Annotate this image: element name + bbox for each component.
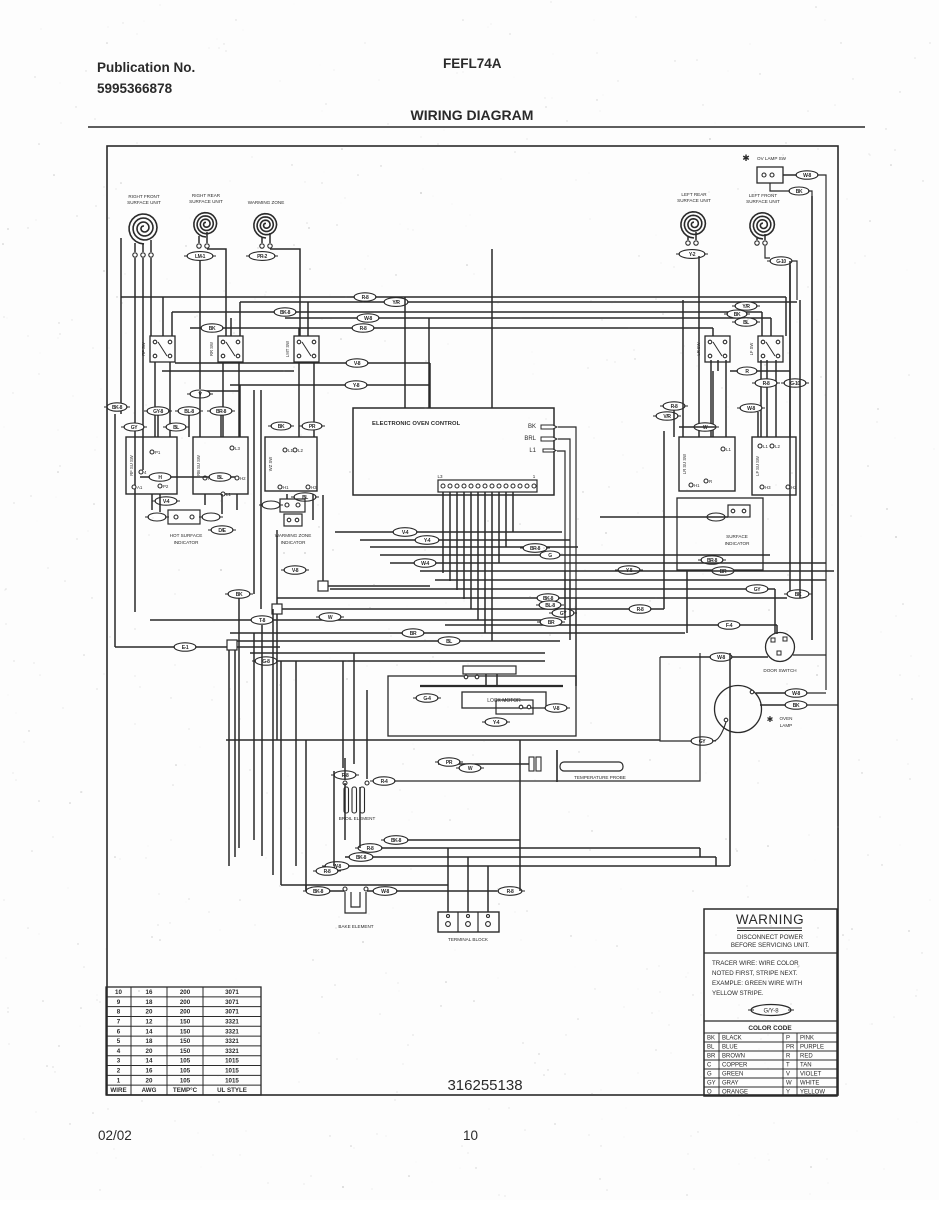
svg-text:TAN: TAN bbox=[800, 1063, 812, 1069]
svg-text:✱: ✱ bbox=[767, 715, 774, 724]
svg-text:BK-8: BK-8 bbox=[112, 405, 123, 411]
svg-text:V-4: V-4 bbox=[402, 530, 409, 536]
svg-text:LEFT REAR: LEFT REAR bbox=[681, 192, 707, 197]
svg-text:150: 150 bbox=[180, 1018, 191, 1025]
svg-text:R: R bbox=[709, 479, 712, 484]
svg-text:V-4: V-4 bbox=[163, 499, 170, 505]
svg-text:RIGHT FRONT: RIGHT FRONT bbox=[128, 194, 159, 199]
svg-text:20: 20 bbox=[146, 1077, 153, 1084]
svg-text:14: 14 bbox=[146, 1058, 153, 1065]
svg-text:18: 18 bbox=[146, 1038, 153, 1045]
svg-text:TEMP°C: TEMP°C bbox=[173, 1087, 198, 1094]
svg-text:L3: L3 bbox=[235, 446, 240, 451]
svg-text:105: 105 bbox=[180, 1068, 191, 1075]
svg-text:BL: BL bbox=[743, 320, 749, 326]
svg-text:BEFORE SERVICING UNIT.: BEFORE SERVICING UNIT. bbox=[731, 942, 810, 949]
svg-text:V-8: V-8 bbox=[292, 568, 299, 574]
svg-text:LM-1: LM-1 bbox=[195, 254, 206, 260]
svg-text:INDICATOR: INDICATOR bbox=[725, 541, 751, 546]
svg-text:P2: P2 bbox=[163, 484, 169, 489]
svg-text:OVEN: OVEN bbox=[779, 716, 792, 721]
svg-text:W: W bbox=[703, 425, 708, 431]
svg-text:BR: BR bbox=[707, 1054, 716, 1060]
svg-text:105: 105 bbox=[180, 1058, 191, 1065]
svg-text:G-8: G-8 bbox=[262, 659, 270, 665]
svg-text:BK: BK bbox=[278, 424, 285, 430]
svg-text:F-4: F-4 bbox=[726, 623, 733, 629]
svg-text:3071: 3071 bbox=[225, 1009, 239, 1016]
svg-text:INDICATOR: INDICATOR bbox=[174, 540, 200, 545]
svg-text:TEMPERATURE PROBE: TEMPERATURE PROBE bbox=[574, 775, 626, 780]
svg-text:3321: 3321 bbox=[225, 1028, 239, 1035]
svg-text:G: G bbox=[707, 1072, 712, 1078]
svg-text:SURFACE UNIT: SURFACE UNIT bbox=[677, 198, 711, 203]
svg-text:L1: L1 bbox=[226, 492, 231, 497]
svg-text:WARMING ZONE: WARMING ZONE bbox=[248, 200, 285, 205]
svg-text:G/Y-8: G/Y-8 bbox=[763, 1009, 779, 1015]
svg-text:Publication No.: Publication No. bbox=[97, 60, 195, 75]
svg-text:BK: BK bbox=[734, 312, 741, 318]
svg-text:SURFACE UNIT: SURFACE UNIT bbox=[127, 200, 161, 205]
svg-text:VIOLET: VIOLET bbox=[800, 1072, 822, 1078]
svg-text:DISCONNECT POWER: DISCONNECT POWER bbox=[737, 934, 803, 941]
svg-text:TERMINAL BLOCK: TERMINAL BLOCK bbox=[448, 937, 489, 942]
svg-text:TRACER WIRE: WIRE COLOR: TRACER WIRE: WIRE COLOR bbox=[712, 960, 799, 967]
svg-text:BR-8: BR-8 bbox=[530, 546, 541, 552]
svg-text:WZ SW: WZ SW bbox=[268, 457, 273, 471]
svg-text:BL: BL bbox=[446, 639, 452, 645]
svg-text:BR-8: BR-8 bbox=[216, 409, 227, 415]
svg-text:WIRE: WIRE bbox=[110, 1087, 126, 1094]
svg-text:P: P bbox=[786, 1036, 790, 1042]
svg-text:3321: 3321 bbox=[225, 1038, 239, 1045]
svg-text:W-8: W-8 bbox=[381, 889, 389, 895]
svg-text:12: 12 bbox=[146, 1018, 153, 1025]
svg-text:L3: L3 bbox=[437, 474, 443, 479]
svg-text:G-10: G-10 bbox=[776, 259, 786, 265]
svg-text:BR: BR bbox=[410, 631, 417, 637]
svg-text:COLOR CODE: COLOR CODE bbox=[748, 1025, 792, 1032]
svg-text:D/E: D/E bbox=[218, 528, 226, 534]
svg-text:A1: A1 bbox=[137, 485, 143, 490]
svg-text:WARNING: WARNING bbox=[736, 912, 804, 927]
svg-text:UL STYLE: UL STYLE bbox=[217, 1087, 247, 1094]
svg-text:3321: 3321 bbox=[225, 1018, 239, 1025]
svg-text:SURFACE UNIT: SURFACE UNIT bbox=[189, 199, 223, 204]
svg-text:BK: BK bbox=[528, 424, 536, 430]
svg-text:BK: BK bbox=[236, 592, 243, 598]
svg-text:8: 8 bbox=[117, 1009, 121, 1016]
svg-text:V-8: V-8 bbox=[354, 361, 361, 367]
svg-text:H3: H3 bbox=[765, 485, 771, 490]
svg-text:16: 16 bbox=[146, 989, 153, 996]
svg-text:LOCK MOTOR: LOCK MOTOR bbox=[487, 698, 521, 704]
svg-text:R-8: R-8 bbox=[367, 846, 374, 852]
svg-text:14: 14 bbox=[146, 1028, 153, 1035]
svg-text:10: 10 bbox=[463, 1128, 478, 1143]
svg-text:RB SU SW: RB SU SW bbox=[196, 455, 201, 476]
svg-text:1015: 1015 bbox=[225, 1058, 239, 1065]
svg-text:R-8: R-8 bbox=[763, 381, 770, 387]
svg-text:BAKE ELEMENT: BAKE ELEMENT bbox=[338, 924, 373, 929]
svg-text:GRAY: GRAY bbox=[722, 1081, 739, 1087]
svg-text:FEFL74A: FEFL74A bbox=[443, 56, 502, 71]
svg-text:BK: BK bbox=[707, 1036, 715, 1042]
svg-text:Y-8: Y-8 bbox=[353, 383, 360, 389]
svg-text:R: R bbox=[786, 1054, 791, 1060]
svg-text:Y: Y bbox=[786, 1090, 790, 1096]
svg-text:R-8: R-8 bbox=[360, 326, 367, 332]
svg-text:ELECTRONIC OVEN CONTROL: ELECTRONIC OVEN CONTROL bbox=[372, 421, 461, 427]
svg-text:BK-8: BK-8 bbox=[313, 889, 324, 895]
svg-text:SURFACE UNIT: SURFACE UNIT bbox=[746, 199, 780, 204]
svg-text:DOOR SWITCH: DOOR SWITCH bbox=[763, 668, 796, 673]
svg-text:P1: P1 bbox=[155, 450, 161, 455]
svg-text:L1: L1 bbox=[763, 444, 768, 449]
svg-text:RIGHT REAR: RIGHT REAR bbox=[192, 193, 221, 198]
svg-text:H1: H1 bbox=[283, 485, 289, 490]
svg-text:20: 20 bbox=[146, 1048, 153, 1055]
svg-text:T: T bbox=[786, 1063, 790, 1069]
svg-text:GREEN: GREEN bbox=[722, 1072, 743, 1078]
svg-text:16: 16 bbox=[146, 1068, 153, 1075]
svg-text:20: 20 bbox=[146, 1009, 153, 1016]
svg-text:2: 2 bbox=[117, 1068, 121, 1075]
svg-text:R-8: R-8 bbox=[637, 607, 644, 613]
svg-text:RF SW: RF SW bbox=[141, 342, 146, 356]
svg-text:PR-2: PR-2 bbox=[257, 254, 267, 260]
svg-text:BK: BK bbox=[793, 703, 800, 709]
svg-text:R-8: R-8 bbox=[362, 295, 369, 301]
svg-text:150: 150 bbox=[180, 1038, 191, 1045]
svg-text:L2: L2 bbox=[298, 448, 303, 453]
svg-text:LF SW: LF SW bbox=[749, 343, 754, 356]
svg-text:W-8: W-8 bbox=[792, 691, 800, 697]
svg-text:H1: H1 bbox=[694, 483, 700, 488]
svg-text:Y-4: Y-4 bbox=[424, 538, 431, 544]
svg-text:SURFACE: SURFACE bbox=[726, 534, 748, 539]
svg-text:316255138: 316255138 bbox=[447, 1077, 522, 1094]
svg-text:V/R: V/R bbox=[663, 414, 671, 420]
svg-text:W-8: W-8 bbox=[747, 406, 755, 412]
svg-text:BLACK: BLACK bbox=[722, 1036, 742, 1042]
svg-text:BK-8: BK-8 bbox=[391, 838, 402, 844]
svg-text:W: W bbox=[468, 766, 473, 772]
svg-text:BK: BK bbox=[795, 592, 802, 598]
svg-text:9: 9 bbox=[117, 999, 121, 1006]
svg-text:4: 4 bbox=[117, 1048, 121, 1055]
svg-text:R-8: R-8 bbox=[324, 869, 331, 875]
svg-text:L1: L1 bbox=[726, 447, 731, 452]
svg-text:GY: GY bbox=[754, 587, 761, 593]
svg-text:BL-8: BL-8 bbox=[184, 409, 194, 415]
svg-text:02/02: 02/02 bbox=[98, 1128, 132, 1143]
svg-text:LR SU SW: LR SU SW bbox=[682, 454, 687, 474]
svg-text:W-8: W-8 bbox=[803, 173, 811, 179]
svg-text:GY: GY bbox=[560, 611, 567, 617]
svg-text:W: W bbox=[786, 1081, 792, 1087]
svg-text:BR: BR bbox=[548, 620, 555, 626]
svg-text:BK-8: BK-8 bbox=[356, 855, 367, 861]
svg-text:RR SW: RR SW bbox=[209, 342, 214, 356]
svg-text:OV LAMP SW: OV LAMP SW bbox=[757, 156, 787, 161]
svg-text:BL: BL bbox=[707, 1045, 715, 1051]
svg-text:BR: BR bbox=[720, 569, 727, 575]
svg-text:GY: GY bbox=[707, 1081, 716, 1087]
svg-text:1015: 1015 bbox=[225, 1068, 239, 1075]
svg-text:BL: BL bbox=[217, 475, 223, 481]
svg-text:BL: BL bbox=[173, 425, 179, 431]
svg-text:RF SU SW: RF SU SW bbox=[129, 455, 134, 476]
svg-text:G: G bbox=[548, 553, 552, 559]
svg-text:7: 7 bbox=[117, 1018, 121, 1025]
svg-text:AWG: AWG bbox=[142, 1087, 157, 1094]
svg-text:R-8: R-8 bbox=[507, 889, 514, 895]
svg-text:150: 150 bbox=[180, 1048, 191, 1055]
svg-text:INDICATOR: INDICATOR bbox=[281, 540, 307, 545]
svg-text:YELLOW: YELLOW bbox=[800, 1090, 825, 1096]
svg-text:1015: 1015 bbox=[225, 1077, 239, 1084]
svg-text:3: 3 bbox=[117, 1058, 121, 1065]
svg-text:3071: 3071 bbox=[225, 989, 239, 996]
svg-text:W-8: W-8 bbox=[717, 655, 725, 661]
svg-text:10: 10 bbox=[115, 989, 122, 996]
svg-text:O: O bbox=[707, 1090, 712, 1096]
svg-text:LAMP: LAMP bbox=[780, 723, 793, 728]
svg-text:BRL: BRL bbox=[524, 436, 536, 442]
svg-text:H2: H2 bbox=[791, 485, 797, 490]
svg-text:NOTED FIRST, STRIPE NEXT.: NOTED FIRST, STRIPE NEXT. bbox=[712, 970, 798, 977]
svg-text:BK: BK bbox=[796, 189, 803, 195]
svg-text:6: 6 bbox=[117, 1028, 121, 1035]
svg-text:WARMING ZONE: WARMING ZONE bbox=[275, 533, 312, 538]
svg-text:PURPLE: PURPLE bbox=[800, 1045, 824, 1051]
svg-text:H3: H3 bbox=[311, 485, 317, 490]
svg-text:BROWN: BROWN bbox=[722, 1054, 745, 1060]
svg-text:PR: PR bbox=[786, 1045, 795, 1051]
svg-text:BROIL ELEMENT: BROIL ELEMENT bbox=[339, 816, 376, 821]
svg-text:RED: RED bbox=[800, 1054, 813, 1060]
svg-text:200: 200 bbox=[180, 989, 191, 996]
svg-text:150: 150 bbox=[180, 1028, 191, 1035]
svg-text:Y/R: Y/R bbox=[392, 300, 400, 306]
svg-text:HOT SURFACE: HOT SURFACE bbox=[170, 533, 203, 538]
svg-text:WIRING DIAGRAM: WIRING DIAGRAM bbox=[411, 107, 534, 123]
svg-text:200: 200 bbox=[180, 999, 191, 1006]
svg-text:PR: PR bbox=[446, 760, 453, 766]
svg-text:3071: 3071 bbox=[225, 999, 239, 1006]
svg-text:3321: 3321 bbox=[225, 1048, 239, 1055]
svg-text:H2: H2 bbox=[240, 476, 246, 481]
svg-text:R-8: R-8 bbox=[671, 404, 678, 410]
svg-text:W: W bbox=[328, 615, 333, 621]
svg-text:5995366878: 5995366878 bbox=[97, 81, 173, 96]
svg-text:Y-4: Y-4 bbox=[493, 720, 500, 726]
svg-text:5: 5 bbox=[117, 1038, 121, 1045]
svg-text:W-8: W-8 bbox=[364, 316, 372, 322]
svg-text:W-4: W-4 bbox=[421, 561, 429, 567]
svg-text:WHITE: WHITE bbox=[800, 1081, 819, 1087]
svg-text:BL-8: BL-8 bbox=[545, 603, 555, 609]
svg-text:PR: PR bbox=[309, 424, 316, 430]
svg-text:LF SU SW: LF SU SW bbox=[755, 456, 760, 476]
svg-text:T-8: T-8 bbox=[259, 618, 266, 624]
svg-text:G-4: G-4 bbox=[423, 696, 431, 702]
svg-text:PINK: PINK bbox=[800, 1036, 814, 1042]
svg-text:✱: ✱ bbox=[742, 153, 750, 163]
svg-text:R-4: R-4 bbox=[381, 779, 388, 785]
svg-text:105: 105 bbox=[180, 1077, 191, 1084]
svg-text:G-10: G-10 bbox=[790, 381, 800, 387]
svg-text:COPPER: COPPER bbox=[722, 1063, 748, 1069]
svg-text:L2: L2 bbox=[775, 444, 780, 449]
svg-text:GY-8: GY-8 bbox=[153, 409, 163, 415]
svg-text:Y/R: Y/R bbox=[742, 304, 750, 310]
svg-text:GY: GY bbox=[131, 425, 138, 431]
svg-text:LMT SW: LMT SW bbox=[285, 341, 290, 357]
svg-text:C: C bbox=[707, 1063, 712, 1069]
svg-text:1: 1 bbox=[117, 1077, 121, 1084]
svg-text:Y-2: Y-2 bbox=[689, 252, 696, 258]
svg-text:EXAMPLE: GREEN WIRE WITH: EXAMPLE: GREEN WIRE WITH bbox=[712, 980, 802, 987]
svg-text:V: V bbox=[786, 1072, 790, 1078]
svg-text:200: 200 bbox=[180, 1009, 191, 1016]
svg-text:V-8: V-8 bbox=[553, 706, 560, 712]
svg-text:BK: BK bbox=[209, 326, 216, 332]
svg-text:L1: L1 bbox=[529, 448, 536, 454]
svg-text:E-1: E-1 bbox=[182, 645, 189, 651]
svg-text:BK-8: BK-8 bbox=[280, 310, 291, 316]
svg-text:YELLOW STRIPE.: YELLOW STRIPE. bbox=[712, 990, 764, 997]
svg-text:18: 18 bbox=[146, 999, 153, 1006]
